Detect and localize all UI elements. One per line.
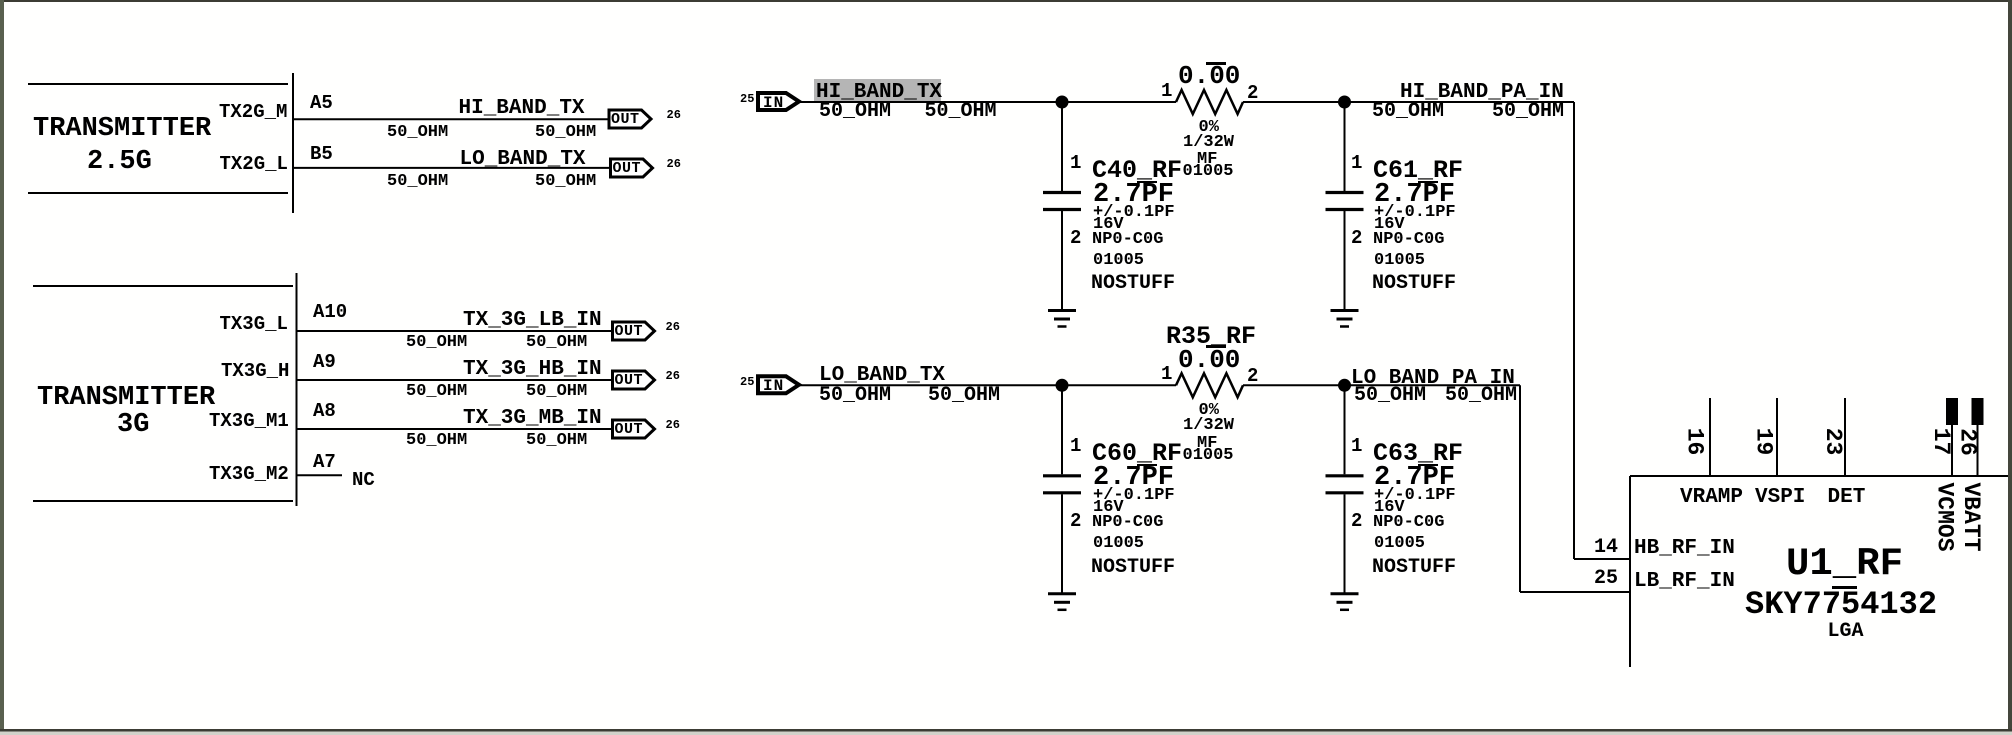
- pin number A7: [313, 453, 336, 472]
- block TRANSMITTER 3G top edge: [33, 285, 293, 287]
- pin VRAMP stub: [1709, 398, 1711, 476]
- wire TX3G_M1 A8 to OUT port: [297, 428, 612, 430]
- port IN (LO_BAND_TX): [758, 376, 799, 393]
- tolerance +/-0.1PF of C60_RF: [1093, 487, 1175, 504]
- pin DET stub: [1844, 398, 1846, 476]
- net label HI_BAND_TX (highlighted): [816, 82, 942, 103]
- ground (C61_RF): [1331, 311, 1359, 327]
- pin name VRAMP: [1680, 487, 1743, 508]
- wire junction to C60 top: [1061, 385, 1063, 474]
- type MF of HI resistor: [1197, 151, 1217, 168]
- wire resistor to junction (LO_BAND_PA_IN): [1243, 384, 1520, 386]
- overbar on SKY7754132: [1832, 586, 1857, 589]
- wire HI_BAND_PA_IN to HB_RF_IN pin: [1574, 558, 1630, 560]
- label OUT in port OUT (TX_3G_HB_IN): [615, 373, 644, 388]
- capacitor C60_RF: [1043, 476, 1081, 493]
- pin name LB_RF_IN: [1634, 571, 1735, 592]
- label 50_OHM: [925, 102, 997, 122]
- net label LO_BAND_TX (left): [460, 149, 586, 170]
- label 50_OHM: [406, 432, 467, 449]
- pin label TX3G_M1: [209, 412, 289, 431]
- value 2.7PF of C61_RF: [1374, 182, 1455, 209]
- pin number 1 of C61_RF: [1351, 154, 1362, 173]
- ground (C40_RF): [1048, 311, 1076, 327]
- pin name DET: [1828, 487, 1866, 508]
- dielectric NP0-C0G of C40_RF: [1092, 231, 1163, 248]
- wire TX2G_L B5 to OUT port: [293, 167, 609, 169]
- pin label TX2G_M: [219, 103, 287, 122]
- overbar on 2.7PF of C60_RF: [1137, 464, 1157, 467]
- overbar on 2.7PF of C63_RF: [1418, 464, 1438, 467]
- wire C40 bottom to ground: [1061, 211, 1063, 311]
- label NOSTUFF of C40_RF: [1091, 274, 1175, 294]
- wire C63 bottom to ground: [1344, 494, 1346, 594]
- port number 26: [666, 370, 680, 382]
- port number 25 (LO IN): [740, 376, 754, 388]
- package 01005 of HI resistor: [1183, 163, 1234, 180]
- pin label TX3G_H: [221, 362, 289, 381]
- refdes R35_RF: [1166, 324, 1256, 349]
- port number 26: [667, 158, 681, 170]
- type MF of R35_RF: [1197, 435, 1217, 452]
- value 2.7PF of C40_RF: [1093, 182, 1174, 209]
- wire C61 bottom to ground: [1344, 211, 1346, 311]
- pin number 1 of R35_RF: [1161, 365, 1172, 384]
- label NOSTUFF of C60_RF: [1091, 558, 1175, 578]
- wire C60 bottom to ground: [1061, 494, 1063, 594]
- port OUT (TX_3G_LB_IN): [613, 322, 655, 340]
- tolerance +/-0.1PF of C63_RF: [1374, 487, 1456, 504]
- part number SKY7754132: [1745, 589, 1937, 621]
- wire junction to C61 top: [1344, 102, 1346, 191]
- IC U1_RF top edge: [1630, 475, 2008, 477]
- dielectric NP0-C0G of C61_RF: [1373, 231, 1444, 248]
- tolerance +/-0.1PF of C61_RF: [1374, 204, 1456, 221]
- net label TX_3G_HB_IN: [463, 359, 602, 380]
- pin VCMOS stub: [1946, 398, 1958, 476]
- block TRANSMITTER 3G right edge: [296, 273, 298, 506]
- block TRANSMITTER 2.5G right edge: [292, 73, 294, 213]
- tolerance +/-0.1PF of C40_RF: [1093, 204, 1175, 221]
- package LGA: [1828, 622, 1864, 642]
- pin number A10: [313, 303, 347, 322]
- pin number B5: [310, 145, 333, 164]
- label 50_OHM: [819, 102, 891, 122]
- pin number 2 of C61_RF: [1351, 229, 1362, 248]
- package 01005 of C61_RF: [1374, 252, 1425, 269]
- label 50_OHM: [406, 383, 467, 400]
- pin label TX3G_M2: [209, 465, 289, 484]
- refdes C61_RF: [1373, 158, 1463, 183]
- value 0.00 of R35_RF: [1178, 347, 1240, 373]
- pin name HB_RF_IN: [1634, 538, 1735, 559]
- wire LO_BAND_PA_IN vertical drop: [1519, 385, 1521, 592]
- wire TX3G_H A9 to OUT port: [297, 379, 612, 381]
- package 01005 of C40_RF: [1093, 252, 1144, 269]
- pin number 1 of HI resistor: [1161, 82, 1172, 101]
- label 50_OHM: [928, 386, 1000, 406]
- refdes C60_RF: [1092, 441, 1182, 466]
- label 50_OHM: [535, 124, 596, 141]
- junction node HI_BAND_PA_IN / C61: [1338, 96, 1351, 109]
- pin number A5: [310, 94, 333, 113]
- label 50_OHM: [526, 383, 587, 400]
- pin number 1 of C40_RF: [1070, 154, 1081, 173]
- label OUT in port OUT (HI_BAND_TX): [611, 112, 640, 127]
- dielectric NP0-C0G of C63_RF: [1373, 514, 1444, 531]
- block TRANSMITTER 2.5G bottom edge: [28, 192, 288, 194]
- net label TX_3G_MB_IN: [463, 408, 602, 429]
- pin number 1 of C63_RF: [1351, 437, 1362, 456]
- label 50_OHM: [819, 386, 891, 406]
- package 01005 of C63_RF: [1374, 535, 1425, 552]
- label 50_OHM: [387, 124, 448, 141]
- pin number 2 of R35_RF: [1247, 367, 1258, 386]
- pin number 2 of C63_RF: [1351, 512, 1362, 531]
- label NOSTUFF of C61_RF: [1372, 274, 1456, 294]
- pin number 1 of C60_RF: [1070, 437, 1081, 456]
- wire IN to junction (HI_BAND_TX net): [800, 101, 1176, 103]
- pin label TX3G_L: [220, 315, 288, 334]
- refdes C63_RF: [1373, 441, 1463, 466]
- dielectric NP0-C0G of C60_RF: [1092, 514, 1163, 531]
- label 3G: [117, 412, 149, 439]
- resistor R35_RF 0.00 (LO path): [1176, 373, 1243, 397]
- IC U1_RF left edge: [1629, 476, 1631, 667]
- label OUT in port OUT (TX_3G_LB_IN): [615, 324, 644, 339]
- pin number 25 (LB_RF_IN): [1594, 569, 1618, 589]
- port OUT (TX_3G_MB_IN): [613, 420, 655, 438]
- label 50_OHM: [535, 173, 596, 190]
- wire junction to C40 top: [1061, 102, 1063, 191]
- label OUT in port OUT (LO_BAND_TX): [613, 161, 642, 176]
- label 50_OHM: [526, 334, 587, 351]
- pin number 2 of C40_RF: [1070, 229, 1081, 248]
- label IN in port IN (HI_BAND_TX): [763, 95, 784, 111]
- port OUT (HI_BAND_TX): [609, 110, 651, 128]
- tolerance 0% of HI resistor: [1199, 119, 1219, 136]
- label IN in port IN (LO_BAND_TX): [763, 378, 784, 394]
- voltage 16V of C40_RF: [1093, 216, 1124, 233]
- net label LO_BAND_TX (middle): [819, 365, 945, 386]
- wire resistor to junction (HI_BAND_PA_IN): [1243, 101, 1574, 103]
- label 50_OHM: [1445, 386, 1517, 406]
- overbar on 0.00 of R35_RF: [1206, 345, 1226, 348]
- junction node HI_BAND_TX / C40: [1056, 96, 1069, 109]
- svg-text:17: 17: [1928, 428, 1954, 456]
- power 1/32W of HI resistor: [1183, 134, 1234, 151]
- wire IN to junction (LO_BAND_TX net): [800, 384, 1176, 386]
- junction node LO_BAND_PA_IN / C63: [1338, 379, 1351, 392]
- svg-text:VBATT: VBATT: [1958, 482, 1984, 551]
- label NC: [352, 471, 375, 490]
- port IN (HI_BAND_TX): [758, 93, 799, 110]
- pin number A9: [313, 353, 336, 372]
- pin number 2 of HI resistor: [1247, 84, 1258, 103]
- label 50_OHM: [1372, 102, 1444, 122]
- net label LO_BAND_PA_IN: [1351, 368, 1515, 389]
- port number 26: [667, 109, 681, 121]
- value 0.00 of HI resistor: [1178, 63, 1240, 89]
- port OUT (LO_BAND_TX): [611, 159, 653, 177]
- label 50_OHM: [387, 173, 448, 190]
- ground (C63_RF): [1331, 594, 1359, 610]
- pin VBATT stub: [1972, 398, 1984, 476]
- svg-text:19: 19: [1751, 428, 1777, 456]
- highlight box on HI_BAND_TX net name: [814, 79, 941, 101]
- capacitor C63_RF: [1326, 476, 1364, 493]
- voltage 16V of C61_RF: [1374, 216, 1405, 233]
- wire TX2G_M A5 to OUT port: [293, 118, 608, 120]
- block TRANSMITTER 2.5G top edge: [28, 83, 288, 85]
- block TRANSMITTER 3G bottom edge: [33, 500, 293, 502]
- value 2.7PF of C63_RF: [1374, 465, 1455, 492]
- tolerance 0% of R35_RF: [1199, 402, 1219, 419]
- pin number 14 (HB_RF_IN): [1594, 538, 1618, 558]
- label 2.5G: [87, 149, 152, 176]
- wire TX3G_M2 A7 stub: [297, 474, 343, 476]
- net label HI_BAND_TX (left): [459, 98, 585, 119]
- wire TX3G_L A10 to OUT port: [297, 330, 612, 332]
- net label HI_BAND_PA_IN: [1400, 82, 1564, 103]
- label 50_OHM: [1492, 102, 1564, 122]
- junction node LO_BAND_TX / C60: [1056, 379, 1069, 392]
- pin name VSPI: [1755, 487, 1805, 508]
- net label TX_3G_LB_IN: [463, 310, 602, 331]
- label 50_OHM: [1354, 386, 1426, 406]
- pin label TX2G_L: [220, 155, 288, 174]
- port number 26: [666, 321, 680, 333]
- package 01005 of C60_RF: [1093, 535, 1144, 552]
- pin number A8: [313, 402, 336, 421]
- label 50_OHM: [406, 334, 467, 351]
- refdes C40_RF: [1092, 158, 1182, 183]
- svg-text:VCMOS: VCMOS: [1932, 482, 1958, 551]
- pin VSPI stub: [1776, 398, 1778, 476]
- ground (C60_RF): [1048, 594, 1076, 610]
- port number 25 (HI IN): [740, 93, 754, 105]
- package 01005 of R35_RF: [1183, 447, 1234, 464]
- voltage 16V of C60_RF: [1093, 499, 1124, 516]
- label TRANSMITTER (2.5G block): [33, 116, 211, 143]
- label 50_OHM: [526, 432, 587, 449]
- label NOSTUFF of C63_RF: [1372, 558, 1456, 578]
- label TRANSMITTER (3G block): [37, 385, 215, 412]
- pin number 2 of C60_RF: [1070, 512, 1081, 531]
- wire junction to C63 top: [1344, 385, 1346, 474]
- port number 26: [666, 419, 680, 431]
- capacitor C61_RF: [1326, 193, 1364, 210]
- capacitor C40_RF: [1043, 193, 1081, 210]
- overbar on 2.7PF of C40_RF: [1137, 181, 1157, 184]
- svg-text:26: 26: [1955, 428, 1981, 456]
- svg-text:23: 23: [1820, 428, 1846, 456]
- value 2.7PF of C60_RF: [1093, 465, 1174, 492]
- label OUT in port OUT (TX_3G_MB_IN): [615, 422, 644, 437]
- resistor 0.00 (HI path): [1176, 90, 1243, 114]
- voltage 16V of C63_RF: [1374, 499, 1405, 516]
- wire HI_BAND_PA_IN vertical drop: [1573, 102, 1575, 559]
- wire LO_BAND_PA_IN to LB_RF_IN pin: [1520, 591, 1630, 593]
- overbar on 0.00 of HI resistor: [1206, 62, 1226, 65]
- port OUT (TX_3G_HB_IN): [613, 371, 655, 389]
- svg-text:16: 16: [1682, 428, 1708, 456]
- power 1/32W of R35_RF: [1183, 417, 1234, 434]
- refdes U1_RF: [1786, 545, 1903, 584]
- overbar on 2.7PF of C61_RF: [1418, 181, 1438, 184]
